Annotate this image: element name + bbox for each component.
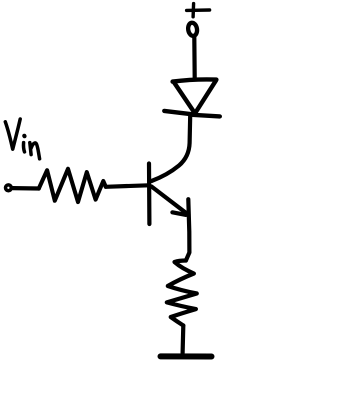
input terminal — [5, 185, 11, 191]
wire resistor to base — [106, 185, 149, 187]
wire diode to supply terminal — [192, 37, 197, 78]
wire resistor to ground — [181, 326, 186, 354]
supply terminal o — [187, 22, 198, 36]
net label Vin — [5, 119, 39, 159]
wire input to resistor — [13, 186, 39, 191]
diode D1 — [164, 79, 220, 116]
transistor Q1 — [149, 116, 190, 261]
supply + symbol — [187, 4, 210, 17]
resistor R1 (base resistor) — [39, 169, 106, 202]
resistor R2 (emitter resistor) — [167, 261, 197, 326]
ground — [161, 353, 212, 359]
